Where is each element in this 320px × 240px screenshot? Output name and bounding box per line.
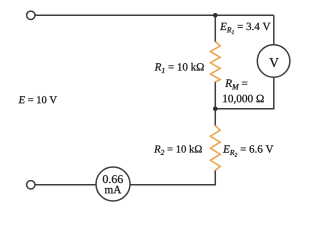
label E_R2 = 6.6 V xyxy=(223,145,273,156)
ammeter unit mA xyxy=(105,186,121,193)
label R1 = 10 kOhm xyxy=(155,63,204,73)
voltmeter dial letter V xyxy=(269,58,278,67)
label R2 = 10 kOhm xyxy=(154,145,202,155)
wire: main vertical branch lower segment xyxy=(214,170,216,185)
label 10,000 Ohm xyxy=(223,95,264,104)
resistor R1 (zigzag) xyxy=(210,42,220,83)
label E_R1 = 3.4 V xyxy=(220,23,270,34)
node: mid junction dot xyxy=(213,107,218,112)
terminal: bottom-left input xyxy=(27,181,35,189)
label RM = xyxy=(225,80,247,90)
label E = 10 V (source voltage) xyxy=(19,96,57,103)
resistor R2 (zigzag) xyxy=(210,126,220,171)
ammeter M1 (0.66 mA) xyxy=(96,167,130,201)
ammeter reading 0.66 xyxy=(103,175,123,183)
wire: bottom horizontal xyxy=(35,184,216,186)
wire: main vertical branch upper segment xyxy=(214,15,216,42)
wire: right branch top (corner down to voltmeter) xyxy=(273,15,275,45)
wire: right branch bottom (voltmeter to mid wire, then left to junction) xyxy=(215,77,273,109)
voltmeter U1 (V) xyxy=(257,45,290,78)
wire: top horizontal xyxy=(35,14,274,16)
wire: main vertical branch middle segment xyxy=(214,82,216,127)
node: top junction dot xyxy=(213,13,218,18)
terminal: top-left input xyxy=(27,11,35,19)
